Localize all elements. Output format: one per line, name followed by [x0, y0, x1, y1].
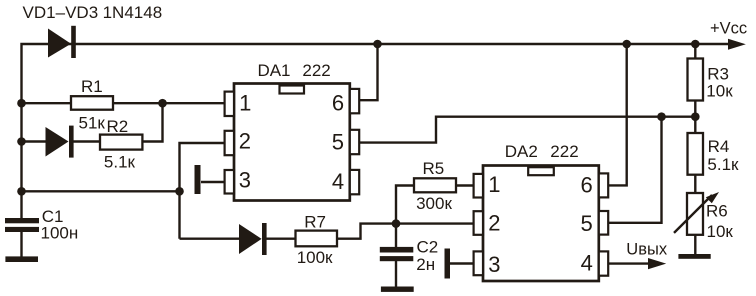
- svg-text:300к: 300к: [416, 194, 452, 213]
- svg-text:R7: R7: [304, 213, 326, 232]
- svg-text:6: 6: [581, 172, 593, 197]
- svg-text:R4: R4: [708, 137, 730, 156]
- svg-text:DA2: DA2: [505, 142, 538, 161]
- svg-text:2: 2: [488, 211, 500, 236]
- svg-text:51к: 51к: [79, 113, 106, 132]
- svg-text:Uвых: Uвых: [626, 241, 668, 259]
- svg-text:100к: 100к: [297, 248, 333, 267]
- svg-text:10к: 10к: [707, 222, 734, 241]
- svg-text:R6: R6: [706, 202, 728, 221]
- svg-text:2н: 2н: [416, 255, 435, 274]
- svg-text:4: 4: [581, 251, 593, 276]
- svg-text:1: 1: [488, 172, 500, 197]
- svg-text:5.1к: 5.1к: [707, 155, 739, 174]
- svg-text:5.1к: 5.1к: [104, 152, 136, 171]
- svg-text:DA1: DA1: [257, 61, 290, 80]
- svg-text:222: 222: [302, 61, 330, 80]
- svg-text:4: 4: [332, 169, 344, 194]
- svg-text:+Vcc: +Vcc: [710, 20, 747, 38]
- svg-text:5: 5: [581, 211, 593, 236]
- svg-text:100н: 100н: [41, 224, 79, 243]
- svg-text:R1: R1: [81, 77, 103, 96]
- svg-text:2: 2: [239, 128, 251, 153]
- svg-text:R3: R3: [707, 64, 729, 83]
- svg-text:1N4148: 1N4148: [103, 3, 163, 22]
- svg-text:VD1–VD3: VD1–VD3: [23, 3, 99, 22]
- svg-text:1: 1: [239, 90, 251, 115]
- svg-text:R5: R5: [423, 159, 445, 178]
- svg-text:6: 6: [332, 90, 344, 115]
- svg-text:C2: C2: [417, 238, 439, 257]
- svg-text:3: 3: [239, 167, 251, 192]
- svg-text:R2: R2: [107, 117, 129, 136]
- svg-text:3: 3: [488, 252, 500, 277]
- svg-text:222: 222: [550, 142, 578, 161]
- svg-text:5: 5: [332, 130, 344, 155]
- svg-text:10к: 10к: [706, 82, 733, 101]
